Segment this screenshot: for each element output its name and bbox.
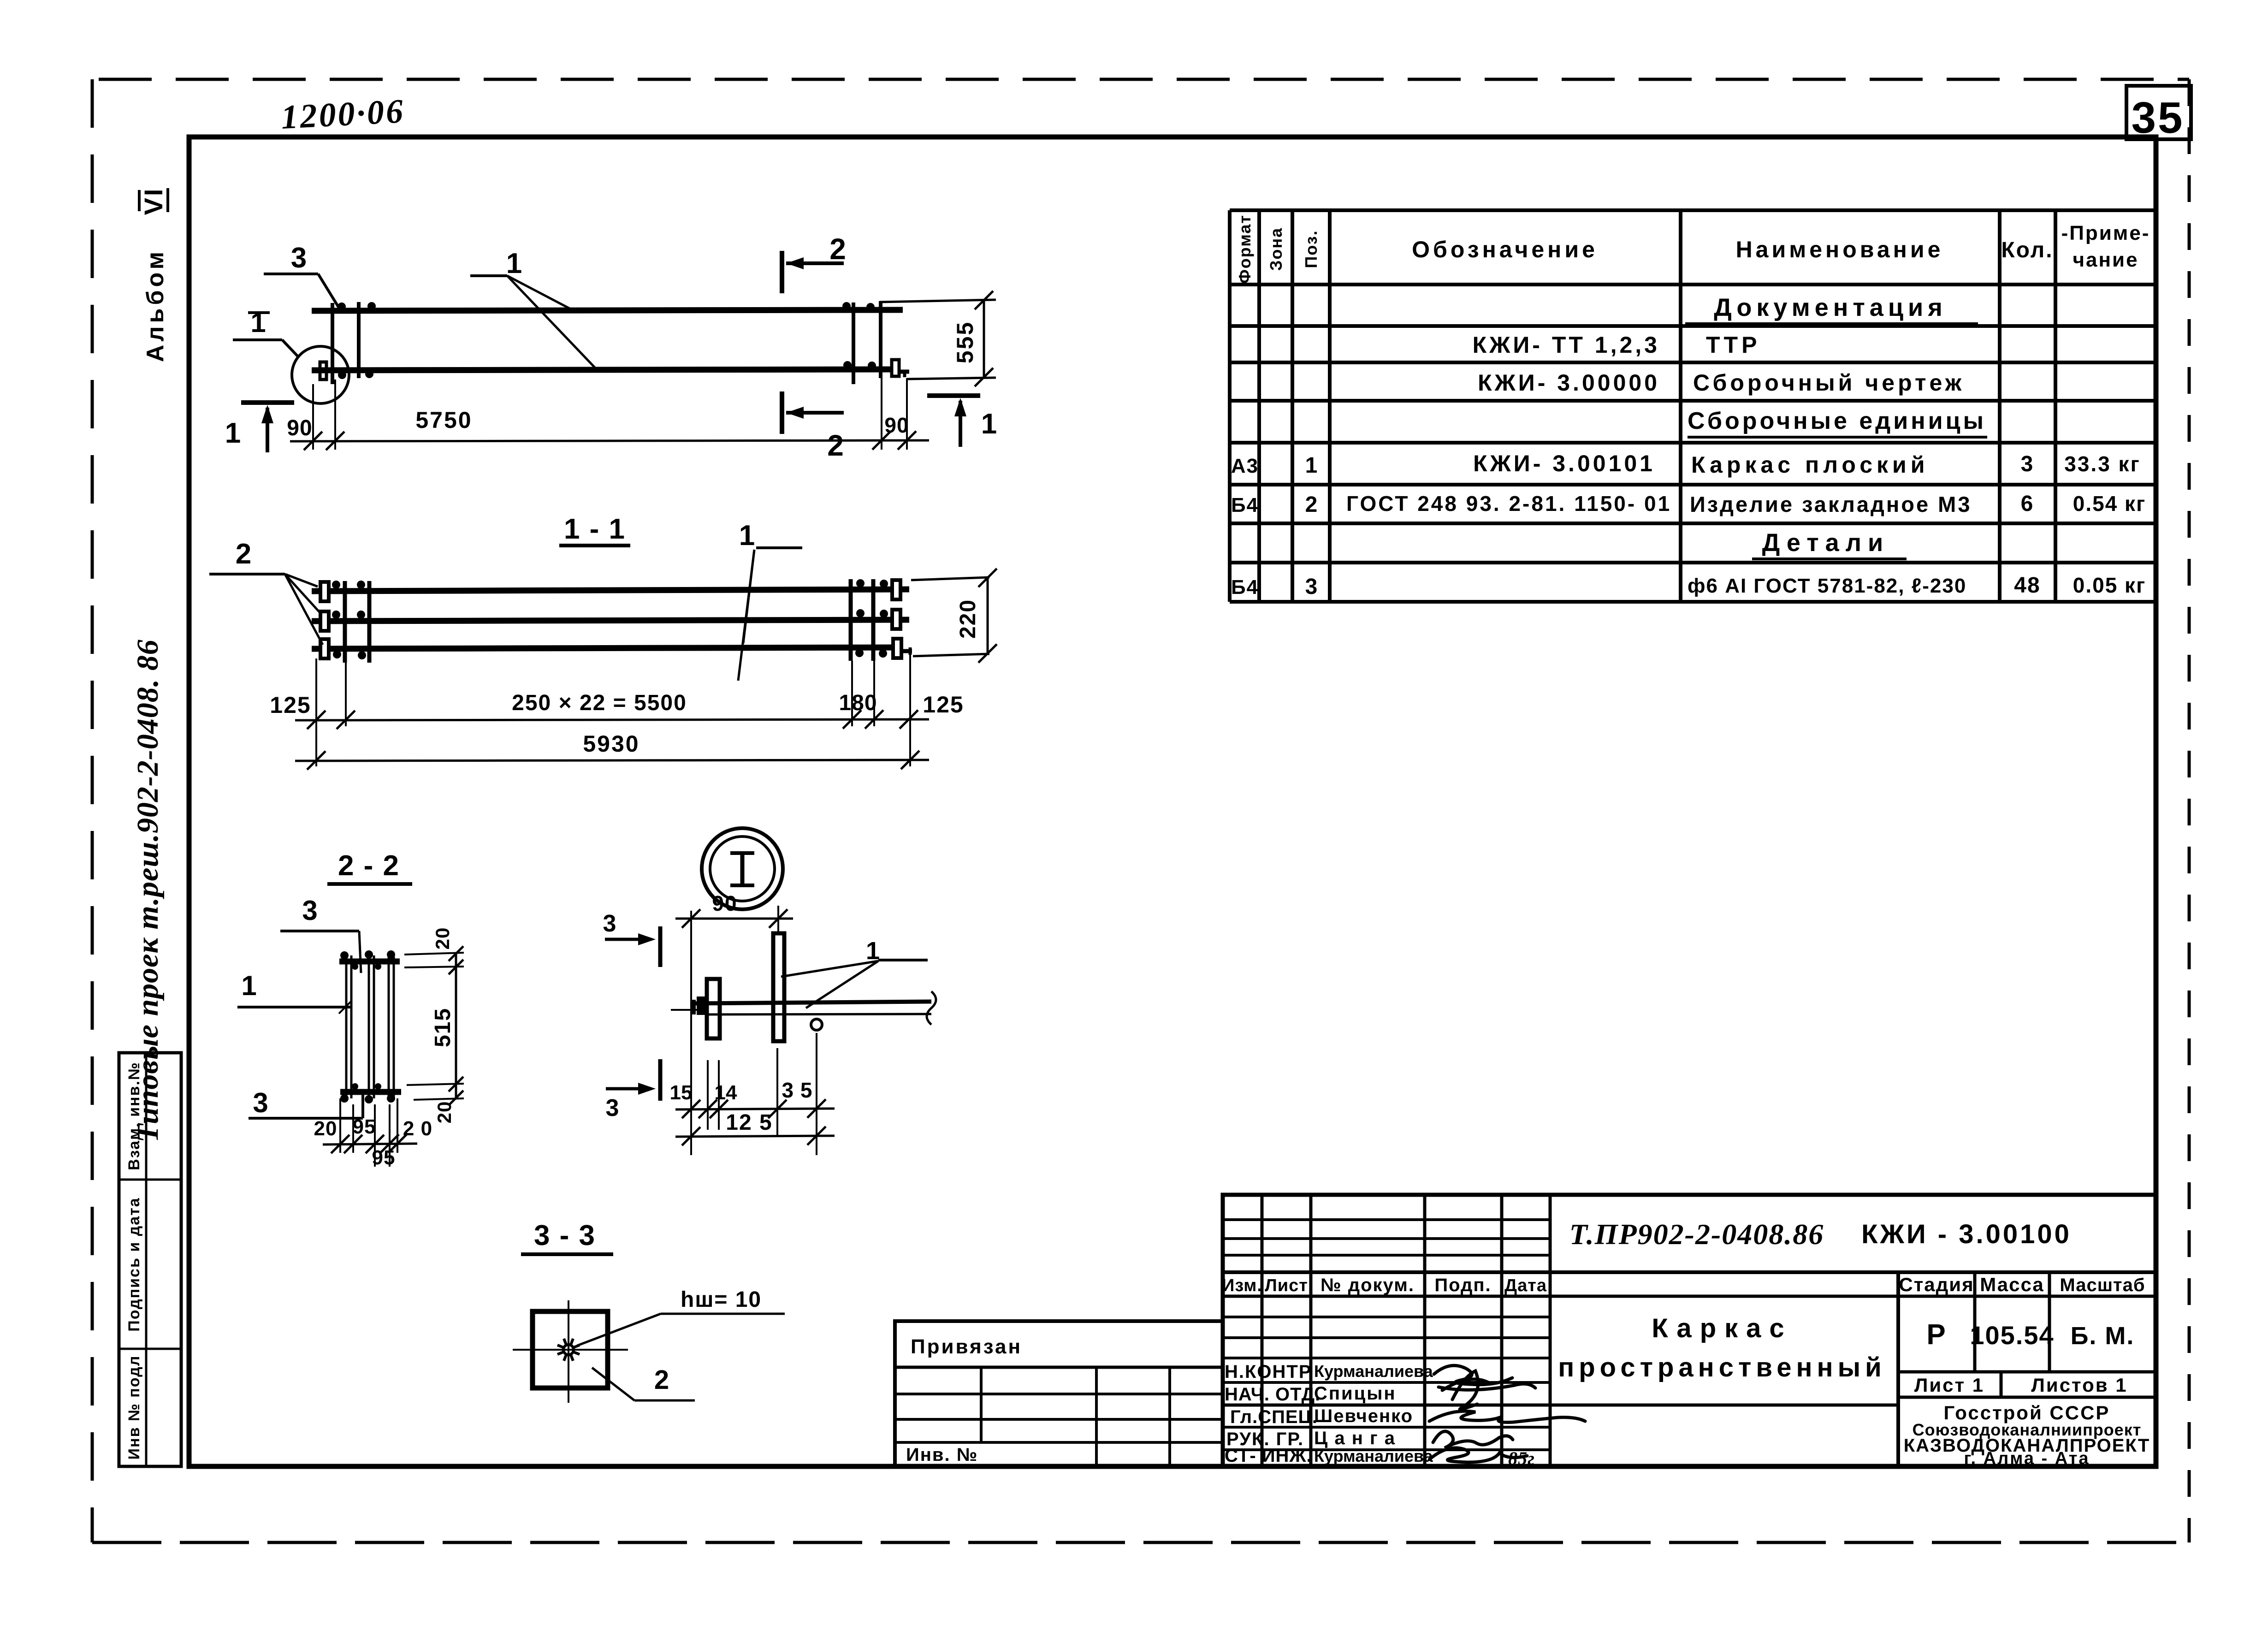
detail circle I (292, 346, 349, 403)
detail: hook circle below bar (811, 1019, 822, 1030)
svg-text:3: 3 (302, 895, 317, 926)
svg-text:515: 515 (431, 1008, 455, 1047)
svg-text:90: 90 (287, 416, 312, 440)
top view: left end plate mark (320, 362, 326, 380)
title block horizontals (1223, 1220, 2156, 1450)
svg-text:г. Алма - Ата: г. Алма - Ата (1964, 1449, 2090, 1468)
svg-text:чание: чание (2073, 249, 2138, 271)
svg-text:Сборочный чертеж: Сборочный чертеж (1693, 370, 1965, 396)
svg-text:Альбом: Альбом (142, 249, 169, 362)
svg-text:3 5: 3 5 (782, 1078, 813, 1102)
top view: lower bar (312, 369, 892, 370)
2-2 bottom dim line (323, 1144, 417, 1145)
svg-text:105.54: 105.54 (1970, 1321, 2054, 1350)
svg-text:Б4: Б4 (1231, 576, 1259, 599)
signatures (scribbles) (1429, 1365, 1585, 1462)
svg-text:Р: Р (1926, 1319, 1946, 1351)
2-2 right dims (404, 953, 464, 955)
svg-text:1: 1 (981, 408, 997, 440)
top view: left cross rods (331, 303, 334, 384)
svg-text:90: 90 (884, 413, 909, 437)
svg-text:3: 3 (603, 910, 616, 937)
svg-text:5930: 5930 (583, 731, 640, 757)
svg-text:1: 1 (241, 970, 256, 1001)
svg-text:Детали: Детали (1762, 529, 1889, 557)
dim 555 right (880, 300, 996, 302)
detail: bolt end + centerline (671, 1009, 705, 1011)
2-2 bottom dim extensions (339, 1098, 341, 1153)
2-2 vertical rod pairs (345, 955, 348, 1098)
svg-text:ТТР: ТТР (1706, 332, 1760, 358)
svg-text:0.05 кг: 0.05 кг (2073, 573, 2146, 597)
svg-text:КЖИ - 3.00100: КЖИ - 3.00100 (1861, 1219, 2072, 1249)
svg-text:1: 1 (506, 248, 522, 279)
leader 2 (3-3) (592, 1368, 634, 1400)
title block outer (1223, 1195, 2156, 1466)
svg-text:12 5: 12 5 (726, 1110, 772, 1135)
svg-text:Каркас плоский: Каркас плоский (1691, 452, 1929, 478)
svg-text:Подпись и дата: Подпись и дата (125, 1197, 143, 1331)
svg-text:15: 15 (670, 1081, 693, 1104)
svg-text:555: 555 (952, 321, 978, 363)
svg-text:СТ- ИНЖ.: СТ- ИНЖ. (1225, 1446, 1312, 1466)
svg-text:95: 95 (353, 1115, 376, 1138)
svg-text:Листов 1: Листов 1 (2031, 1374, 2127, 1396)
dim 90 right (881, 378, 882, 450)
svg-text:2: 2 (827, 429, 844, 462)
svg-text:Поз.: Поз. (1302, 230, 1321, 268)
svg-text:90: 90 (712, 891, 737, 915)
svg-text:Ц а н г а: Ц а н г а (1314, 1428, 1396, 1448)
svg-text:95: 95 (372, 1146, 396, 1169)
1-1 end plates left (320, 582, 329, 601)
page number box 35 (2126, 86, 2191, 139)
svg-text:Лист: Лист (1265, 1276, 1308, 1295)
svg-text:Лист 1: Лист 1 (1914, 1374, 1984, 1396)
svg-text:3: 3 (291, 242, 307, 274)
dim line 5750 (290, 440, 929, 441)
detail: rod with break (694, 1002, 931, 1003)
3-3 centerlines (568, 1300, 569, 1403)
svg-text:Курманалиева: Курманалиева (1314, 1447, 1433, 1465)
1-1 dim 220 right (911, 577, 989, 580)
svg-text:3: 3 (2021, 452, 2034, 476)
svg-text:Сборочные единицы: Сборочные единицы (1688, 408, 1986, 434)
svg-text:hш= 10: hш= 10 (681, 1287, 762, 1312)
dim 90 left (top view) (312, 384, 314, 450)
svg-text:А3: А3 (1231, 455, 1259, 477)
svg-text:250 × 22 = 5500: 250 × 22 = 5500 (512, 691, 687, 715)
1-1 bottom bar right hook (901, 649, 912, 653)
svg-text:3 - 3: 3 - 3 (534, 1220, 596, 1251)
svg-text:Б. М.: Б. М. (2071, 1322, 2135, 1350)
main drawing frame (189, 137, 2156, 1466)
svg-text:Инв № подл: Инв № подл (125, 1355, 143, 1460)
svg-text:Привязан: Привязан (911, 1335, 1022, 1358)
title block verticals (1262, 1195, 2049, 1466)
svg-text:Дата: Дата (1504, 1276, 1547, 1295)
detail bottom dims (707, 1060, 709, 1130)
svg-text:VI: VI (139, 187, 168, 215)
top view: upper bar (312, 310, 903, 311)
svg-text:Формат: Формат (1235, 214, 1254, 284)
svg-text:1 - 1: 1 - 1 (564, 513, 626, 545)
svg-text:Н.КОНТР: Н.КОНТР (1225, 1362, 1312, 1382)
svg-text:125: 125 (270, 692, 311, 718)
svg-text:Масса: Масса (1980, 1274, 2044, 1295)
svg-text:Кол.: Кол. (2001, 238, 2053, 262)
section mark 1 right (927, 393, 980, 398)
2-2 weld dots (340, 951, 349, 960)
svg-text:1: 1 (1305, 453, 1319, 478)
svg-text:6: 6 (2021, 492, 2034, 516)
section mark 2 bottom (780, 391, 784, 434)
svg-text:Стадия: Стадия (1899, 1274, 1974, 1295)
svg-text:220: 220 (956, 599, 980, 639)
svg-text:5750: 5750 (415, 407, 472, 433)
svg-text:180: 180 (839, 691, 877, 715)
svg-text:20: 20 (433, 1101, 455, 1124)
svg-text:0.54 кг: 0.54 кг (2073, 492, 2146, 516)
svg-text:№ докум.: № докум. (1321, 1275, 1415, 1295)
svg-text:3: 3 (1305, 575, 1319, 599)
section mark 2 top (780, 251, 784, 293)
3-3 weld star (557, 1339, 580, 1361)
top view: weld dots (338, 302, 346, 311)
svg-text:125: 125 (923, 692, 964, 718)
2-2 bottom bar (340, 1089, 401, 1095)
svg-text:20: 20 (314, 1117, 338, 1140)
svg-text:Инв. №: Инв. № (906, 1445, 978, 1465)
detail: washer plate (707, 979, 720, 1038)
svg-text:пространственный: пространственный (1558, 1352, 1886, 1382)
specification table grid (1230, 210, 2156, 602)
svg-text:2 0: 2 0 (403, 1117, 432, 1140)
svg-text:КЖИ- ТТ 1,2,3: КЖИ- ТТ 1,2,3 (1473, 332, 1660, 358)
svg-text:Подп.: Подп. (1434, 1275, 1491, 1295)
svg-text:Масштаб: Масштаб (2060, 1275, 2145, 1295)
svg-text:48: 48 (2014, 573, 2040, 598)
detail: vertical anchor plate (773, 933, 784, 1041)
detail circle label I (702, 828, 783, 909)
1-1 dim line B: 5930 (295, 760, 929, 761)
1-1 end plates right (892, 580, 900, 599)
svg-text:Спицын: Спицын (1314, 1383, 1397, 1404)
svg-text:КЖИ- 3.00000: КЖИ- 3.00000 (1478, 370, 1660, 396)
svg-text:Наименование: Наименование (1736, 237, 1944, 262)
svg-text:1: 1 (225, 417, 241, 449)
svg-text:2: 2 (654, 1365, 669, 1395)
2-2 top bar (339, 959, 400, 965)
svg-text:КЖИ- 3.00101: КЖИ- 3.00101 (1473, 451, 1655, 476)
svg-text:3: 3 (606, 1095, 619, 1121)
1-1 dim extension lines (315, 658, 317, 726)
svg-text:Шевченко: Шевченко (1314, 1406, 1413, 1426)
svg-text:2 - 2: 2 - 2 (338, 850, 400, 882)
svg-text:-Приме-: -Приме- (2061, 222, 2150, 244)
svg-text:Каркас: Каркас (1652, 1313, 1792, 1343)
svg-text:35: 35 (2132, 93, 2185, 142)
leader hw=10 (3-3) (577, 1314, 661, 1346)
svg-text:Курманалиева: Курманалиева (1314, 1362, 1433, 1381)
dim 90 (detail) (690, 911, 692, 1021)
privjazan box (895, 1321, 1223, 1466)
1-1 dim line A: 125 | 250x22=5500 | 180 | 125 (295, 719, 929, 720)
svg-text:Зона: Зона (1267, 227, 1285, 271)
svg-text:33.3 кг: 33.3 кг (2064, 452, 2141, 476)
svg-text:Взам. инв.№: Взам. инв.№ (125, 1062, 143, 1170)
svg-text:ф6 АI ГОСТ 5781-82, ℓ-230: ф6 АI ГОСТ 5781-82, ℓ-230 (1688, 575, 1966, 597)
svg-text:3: 3 (253, 1087, 268, 1118)
left stamp boxes (119, 1053, 181, 1466)
1-1 cross rods left (343, 581, 347, 663)
dim 125 (detail) (675, 1136, 835, 1137)
svg-text:НАЧ. ОТД.: НАЧ. ОТД. (1225, 1384, 1321, 1405)
1-1 cross rods right (849, 579, 853, 661)
3-3 square plate (533, 1311, 608, 1388)
svg-text:Изм.: Изм. (1222, 1276, 1262, 1295)
outer dashed sheet border (99, 78, 2189, 81)
svg-text:2: 2 (1305, 492, 1319, 517)
top view: right cross rods (852, 302, 855, 384)
top view: right end plate (892, 360, 899, 376)
svg-text:Изделие закладное М3: Изделие закладное М3 (1690, 492, 1972, 516)
svg-text:Б4: Б4 (1231, 494, 1259, 516)
section mark 1 left (241, 400, 294, 405)
svg-text:14: 14 (715, 1081, 737, 1104)
svg-text:1: 1 (739, 520, 755, 552)
svg-text:Обозначение: Обозначение (1412, 237, 1598, 262)
svg-text:Документация: Документация (1714, 294, 1947, 321)
1-1 weld dots (332, 581, 340, 589)
svg-text:2: 2 (829, 232, 846, 266)
svg-text:20: 20 (432, 927, 453, 950)
svg-text:2: 2 (236, 538, 251, 570)
svg-text:Т.ПР902-2-0408.86: Т.ПР902-2-0408.86 (1569, 1218, 1824, 1251)
svg-text:1200·06: 1200·06 (280, 92, 406, 136)
svg-text:ГОСТ 248 93. 2-81. 1150- 01: ГОСТ 248 93. 2-81. 1150- 01 (1346, 492, 1671, 516)
1-1 bars (312, 589, 909, 591)
svg-text:Гл.СПЕЦ.: Гл.СПЕЦ. (1230, 1407, 1318, 1427)
